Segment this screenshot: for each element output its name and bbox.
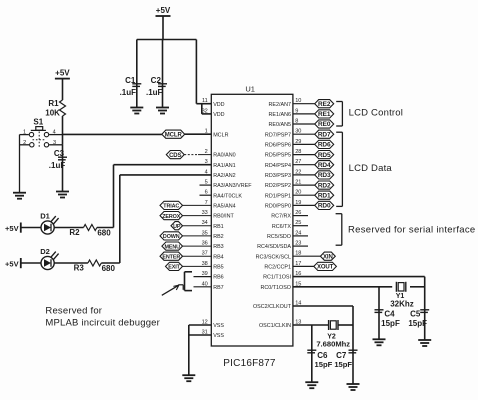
resistor R2 xyxy=(84,225,97,231)
wire pin 16 row to C5 riser xyxy=(293,276,425,278)
net label ENTER xyxy=(160,252,183,260)
net label RD6 xyxy=(315,140,334,148)
svg-text:+5V: +5V xyxy=(156,6,171,15)
wire +5V to R1 xyxy=(62,79,64,100)
wire +5V down to rail xyxy=(162,16,164,40)
net label UP xyxy=(171,222,183,230)
svg-text:15pF: 15pF xyxy=(381,319,400,328)
ground below C6 xyxy=(305,382,318,388)
C3 value .1uF xyxy=(49,161,66,170)
C4 label xyxy=(384,310,395,319)
svg-text:RD4/PSP4: RD4/PSP4 xyxy=(265,163,291,169)
wire pin 21 to RD2 xyxy=(293,184,315,186)
svg-text:32Khz: 32Khz xyxy=(390,299,414,308)
wire MCLR node to C3 xyxy=(62,145,64,192)
U1 value label PIC16F877 xyxy=(223,358,276,369)
wire pin 17 to XOUT xyxy=(293,265,314,267)
R3 label xyxy=(74,264,85,273)
wire pin 15 row to Y1 xyxy=(293,286,392,288)
net label MENU xyxy=(162,242,183,250)
svg-text:15pF: 15pF xyxy=(408,319,427,328)
C7 label xyxy=(336,351,347,360)
svg-text:RB4: RB4 xyxy=(213,254,224,260)
wire pin 4 row xyxy=(120,174,212,176)
svg-text:RB1: RB1 xyxy=(213,224,224,230)
wire +5V to D2 xyxy=(21,262,41,264)
wire pin 27 to RD4 xyxy=(293,164,315,166)
svg-text:MCLR: MCLR xyxy=(165,132,183,138)
R3 value 680 xyxy=(102,264,116,273)
svg-text:RD0/PSP0: RD0/PSP0 xyxy=(265,204,291,210)
C3 label xyxy=(54,149,65,158)
svg-text:RE1: RE1 xyxy=(318,111,331,118)
ground below S1 xyxy=(13,193,26,199)
net label RD5 xyxy=(315,151,334,159)
wire riser R2 to pin 3 row xyxy=(113,165,115,228)
svg-text:RD7: RD7 xyxy=(318,131,331,138)
R2 label xyxy=(69,228,80,237)
Y1 value 32Khz xyxy=(390,299,414,308)
net label ZEROX xyxy=(160,212,183,220)
wire C6 riser xyxy=(311,325,313,382)
net label RD4 xyxy=(315,161,334,169)
wire EXIT to pin 38 xyxy=(183,265,212,267)
wire D1 to R2 xyxy=(54,227,83,229)
svg-text:C5: C5 xyxy=(410,310,421,319)
wire pin 14 row to C7 riser xyxy=(293,305,353,307)
wire pin 10 to RE2 xyxy=(293,103,315,105)
wire C4 riser xyxy=(378,287,380,339)
svg-text:RA4/T0CLK: RA4/T0CLK xyxy=(213,193,242,199)
capacitor C5 symbol xyxy=(420,310,429,313)
wire C1 branch xyxy=(136,40,138,108)
R1 value 10K xyxy=(45,109,60,118)
wire D2 to R3 xyxy=(54,262,88,264)
svg-text:VSS: VSS xyxy=(213,333,224,339)
svg-text:RC4/SDI/SDA: RC4/SDI/SDA xyxy=(257,244,291,250)
S1 pin number 1 xyxy=(23,129,26,135)
svg-text:C3: C3 xyxy=(54,149,65,158)
svg-text:RE2/AN7: RE2/AN7 xyxy=(269,102,291,108)
wire top rail xyxy=(137,39,197,41)
text Reserved for xyxy=(45,306,102,317)
svg-text:LCD Data: LCD Data xyxy=(349,163,393,174)
svg-text:RE1/AN6: RE1/AN6 xyxy=(269,112,291,118)
LED D1 xyxy=(41,216,59,234)
C7 value 15pF xyxy=(334,360,352,369)
net label RD1 xyxy=(315,191,334,199)
ground below C1 xyxy=(130,108,143,114)
ground below C5 xyxy=(418,340,431,346)
svg-text:RD5: RD5 xyxy=(318,152,331,159)
wire pin 8 to RE0 xyxy=(293,123,315,125)
wire pin 18 to XIN xyxy=(293,255,321,257)
net label RE0 xyxy=(315,120,334,128)
wire S1 pin2 to ground rail xyxy=(20,144,30,146)
svg-text:S1: S1 xyxy=(33,118,43,127)
wire riser R3 to pin 4 row xyxy=(119,175,121,263)
Y1 label xyxy=(396,293,405,300)
svg-text:R2: R2 xyxy=(69,228,80,237)
svg-text:RC1/T1OSI: RC1/T1OSI xyxy=(263,275,291,281)
svg-text:RD1/PSP1: RD1/PSP1 xyxy=(265,193,291,199)
svg-text:R3: R3 xyxy=(74,264,85,273)
svg-text:RD7/PSP7: RD7/PSP7 xyxy=(265,132,291,138)
svg-text:RD6/PSP6: RD6/PSP6 xyxy=(265,143,291,149)
C5 value 15pF xyxy=(408,319,427,328)
net label XIN xyxy=(320,252,335,260)
svg-text:D1: D1 xyxy=(40,212,50,221)
S1 pin number 3 xyxy=(53,140,56,146)
svg-text:OSC1/CLKIN: OSC1/CLKIN xyxy=(259,323,291,329)
svg-text:MENU: MENU xyxy=(164,244,180,250)
LCD Control group bracket xyxy=(336,102,342,127)
capacitor C1 symbol xyxy=(132,84,141,87)
wire MENU to pin 36 xyxy=(183,245,212,247)
wire TRIAC to pin 7 xyxy=(183,204,212,206)
svg-text:PIC16F877: PIC16F877 xyxy=(223,358,276,369)
svg-text:RD3: RD3 xyxy=(318,172,331,179)
svg-text:RE0: RE0 xyxy=(318,121,331,128)
C2 label xyxy=(151,76,162,85)
svg-text:ZEROX: ZEROX xyxy=(162,214,181,220)
svg-text:RB2: RB2 xyxy=(213,234,224,240)
net label RE2 xyxy=(315,100,334,108)
S1 label xyxy=(33,118,43,127)
net label EXIT xyxy=(166,262,183,270)
C5 label xyxy=(410,310,421,319)
U1 unconnected right pin stubs (pins 26,25,24,23) xyxy=(293,216,308,247)
capacitor C3 symbol xyxy=(58,157,67,160)
power +5V supply (R1 branch) xyxy=(55,68,70,78)
wire pin 30 to RD7 xyxy=(293,133,315,135)
svg-text:7.680Mhz: 7.680Mhz xyxy=(316,340,350,349)
svg-text:10K: 10K xyxy=(45,109,60,118)
R2 value 680 xyxy=(97,229,111,238)
D1 label xyxy=(40,212,50,221)
R1 label xyxy=(48,99,59,108)
svg-text:RD5/PSP5: RD5/PSP5 xyxy=(265,153,291,159)
svg-text:.1uF: .1uF xyxy=(49,161,66,170)
pointer arrow to ICD pins xyxy=(162,285,183,296)
net label XOUT xyxy=(314,262,337,270)
svg-text:RE0/AN5: RE0/AN5 xyxy=(269,122,291,128)
text Reserved for serial interface xyxy=(348,224,476,235)
ground below VSS xyxy=(182,375,195,381)
power +5V supply (top) xyxy=(156,6,171,16)
crystal Y2 xyxy=(329,320,338,330)
ICD connector bracket xyxy=(185,272,193,291)
wire C5 riser xyxy=(424,277,426,340)
wire VSS pin 12 xyxy=(189,324,212,326)
S1 pin number 4 xyxy=(53,130,56,136)
svg-text:RC2/CCP1: RC2/CCP1 xyxy=(264,265,291,271)
svg-text:680: 680 xyxy=(102,264,116,273)
LCD Data group bracket xyxy=(336,132,342,206)
U1 reference label xyxy=(245,85,255,94)
svg-text:VDD: VDD xyxy=(213,102,224,108)
C6 value 15pF xyxy=(315,360,333,369)
D2 label xyxy=(40,247,50,256)
C1 value .1uF xyxy=(120,88,137,97)
svg-text:RB7: RB7 xyxy=(213,285,224,291)
wire R2 to riser xyxy=(97,227,114,229)
wire C7 riser xyxy=(352,306,354,384)
op-amp U1 PIC16F877 IC body xyxy=(211,94,293,346)
svg-text:RD2/PSP2: RD2/PSP2 xyxy=(265,183,291,189)
svg-text:RB3: RB3 xyxy=(213,244,224,250)
svg-text:Reserved for: Reserved for xyxy=(45,306,102,317)
C1 label xyxy=(125,76,136,85)
ground below C3 xyxy=(56,192,69,198)
U1 unconnected left pin stubs (pins 5,6) xyxy=(200,185,212,195)
svg-text:UP: UP xyxy=(173,224,181,230)
svg-text:RC0/T1OSO: RC0/T1OSO xyxy=(260,285,291,291)
svg-text:RA0/AN0: RA0/AN0 xyxy=(213,153,235,159)
net label RD3 xyxy=(315,171,334,179)
ground below C2 xyxy=(156,108,169,114)
svg-text:RA2/AN2: RA2/AN2 xyxy=(213,173,235,179)
svg-text:+5V: +5V xyxy=(5,260,19,269)
svg-text:.1uF: .1uF xyxy=(120,88,137,97)
svg-text:RE2: RE2 xyxy=(318,101,331,108)
svg-text:MPLAB incircuit debugger: MPLAB incircuit debugger xyxy=(45,317,160,328)
net label MCLR xyxy=(162,130,185,138)
text MPLAB incircuit debugger xyxy=(45,317,160,328)
wire VSS pin 31 xyxy=(189,334,212,336)
wire pin 13 row to Y2 xyxy=(293,324,329,326)
wire R1 to MCLR node xyxy=(62,116,64,145)
net label RD7 xyxy=(315,130,334,138)
svg-text:RD3/PSP3: RD3/PSP3 xyxy=(265,173,291,179)
svg-text:15pF: 15pF xyxy=(315,360,333,369)
svg-text:MCLR: MCLR xyxy=(213,132,228,138)
capacitor C6 symbol xyxy=(307,350,316,353)
net label CDS xyxy=(166,151,184,159)
svg-text:LCD Control: LCD Control xyxy=(349,108,403,119)
capacitor C2 symbol xyxy=(158,84,167,87)
wire pin 40 stub xyxy=(194,286,212,288)
net label TRIAC xyxy=(160,201,183,209)
svg-text:+5V: +5V xyxy=(55,68,70,77)
svg-text:RC3/SCK/SCL: RC3/SCK/SCL xyxy=(256,254,291,260)
svg-text:D2: D2 xyxy=(40,247,50,256)
ground below C4 xyxy=(373,339,386,345)
wire S1 pin3 to MCLR node xyxy=(49,144,62,146)
wire MCLR hexagon to pin 1 xyxy=(185,133,212,135)
wire VDD to pin 32 xyxy=(202,113,212,115)
U1 left pin names and numbers xyxy=(202,98,253,339)
text LCD Data xyxy=(349,163,393,174)
svg-text:RD1: RD1 xyxy=(318,192,331,199)
wire +5V to D1 xyxy=(21,227,41,229)
svg-text:RC5/SDO: RC5/SDO xyxy=(267,234,291,240)
wire ENTER to pin 37 xyxy=(183,255,212,257)
wire pin 28 to RD5 xyxy=(293,154,315,156)
wire C2 branch xyxy=(162,40,164,108)
svg-text:CDS: CDS xyxy=(169,153,181,159)
resistor R3 xyxy=(88,260,101,266)
text LCD Control xyxy=(349,108,403,119)
wire Y1 to C5 riser xyxy=(410,286,425,288)
wire UP to pin 34 xyxy=(183,225,212,227)
svg-text:OSC2/CLKOUT: OSC2/CLKOUT xyxy=(253,304,292,310)
resistor R1 xyxy=(60,100,66,116)
svg-text:C6: C6 xyxy=(317,351,328,360)
Y2 value 7.680Mhz xyxy=(316,340,350,349)
wire pin 39 stub xyxy=(194,276,212,278)
power +5V tail (D2 row) xyxy=(5,258,21,269)
wire pin 22 to RD3 xyxy=(293,174,315,176)
C6 label xyxy=(317,351,328,360)
capacitor C4 symbol xyxy=(375,310,384,313)
svg-text:RA3/AN3/VREF: RA3/AN3/VREF xyxy=(213,183,252,189)
wire pin 3 row xyxy=(114,164,212,166)
wire S1 pin4 to MCLR node xyxy=(49,134,62,136)
ground below C7 xyxy=(347,384,360,390)
svg-text:C4: C4 xyxy=(384,310,395,319)
svg-text:ENTER: ENTER xyxy=(162,254,180,260)
svg-text:.1uF: .1uF xyxy=(146,88,163,97)
net label RE1 xyxy=(315,110,334,118)
svg-text:RA5/AN4: RA5/AN4 xyxy=(213,204,235,210)
svg-text:RA1/AN1: RA1/AN1 xyxy=(213,163,235,169)
Y2 label xyxy=(327,334,336,341)
wire VSS vertical to ground xyxy=(188,325,190,375)
U1 right pin names and numbers xyxy=(253,98,301,329)
svg-text:Reserved for serial interface: Reserved for serial interface xyxy=(348,224,476,235)
net label RD2 xyxy=(315,181,334,189)
svg-text:680: 680 xyxy=(97,229,111,238)
svg-text:EXIT: EXIT xyxy=(168,265,180,271)
svg-text:R1: R1 xyxy=(48,99,59,108)
power +5V tail (D1 row) xyxy=(5,223,21,234)
wire pin 29 to RD6 xyxy=(293,143,315,145)
net label RD0 xyxy=(315,201,334,209)
wire DOWN to pin 35 xyxy=(183,235,212,237)
capacitor C7 symbol xyxy=(349,350,358,353)
wire pin 19 to RD0 xyxy=(293,204,315,206)
C4 value 15pF xyxy=(381,319,400,328)
svg-text:C2: C2 xyxy=(151,76,162,85)
serial group bracket xyxy=(336,214,342,246)
svg-text:+5V: +5V xyxy=(5,224,19,233)
pushbutton switch S1 xyxy=(29,127,48,147)
wire ZEROX to pin 33 xyxy=(183,215,212,217)
svg-text:C7: C7 xyxy=(336,351,347,360)
crystal Y1 xyxy=(396,282,405,292)
svg-text:RD4: RD4 xyxy=(318,162,331,169)
svg-text:RC6/TX: RC6/TX xyxy=(272,224,292,230)
svg-text:RD2: RD2 xyxy=(318,182,331,189)
svg-text:RD0: RD0 xyxy=(318,203,331,210)
net label DOWN xyxy=(160,232,183,240)
svg-text:VSS: VSS xyxy=(213,323,224,329)
wire VDD feed to pin 11 xyxy=(196,103,211,105)
wire S1 ground vertical xyxy=(19,135,21,193)
wire VDD pins tie vertical xyxy=(201,104,203,114)
LED D2 xyxy=(41,252,59,270)
wire R3 to riser xyxy=(101,262,120,264)
wire CDS to pin 2 xyxy=(184,154,211,156)
S1 pin number 2 xyxy=(23,140,26,146)
wire Y2 to C7 riser xyxy=(338,324,353,326)
svg-text:XOUT: XOUT xyxy=(317,265,334,271)
svg-text:15pF: 15pF xyxy=(334,360,352,369)
svg-text:U1: U1 xyxy=(245,85,255,94)
svg-text:RB0/INT: RB0/INT xyxy=(213,214,234,220)
wire MCLR node to hexagon xyxy=(63,133,162,135)
svg-text:RB6: RB6 xyxy=(213,275,224,281)
wire VDD feed down xyxy=(195,40,197,104)
wire S1 pin1 to ground rail xyxy=(20,134,29,136)
svg-text:RD6: RD6 xyxy=(318,142,331,149)
svg-text:DOWN: DOWN xyxy=(163,234,180,240)
wire pin 20 to RD1 xyxy=(293,194,315,196)
svg-text:RC7/RX: RC7/RX xyxy=(271,214,291,220)
svg-text:RB5: RB5 xyxy=(213,265,224,271)
C2 value .1uF xyxy=(146,88,163,97)
wire pin 9 to RE1 xyxy=(293,113,315,115)
svg-text:VDD: VDD xyxy=(213,112,224,118)
svg-text:XIN: XIN xyxy=(323,254,333,260)
svg-text:C1: C1 xyxy=(125,76,136,85)
svg-text:TRIAC: TRIAC xyxy=(163,204,179,210)
